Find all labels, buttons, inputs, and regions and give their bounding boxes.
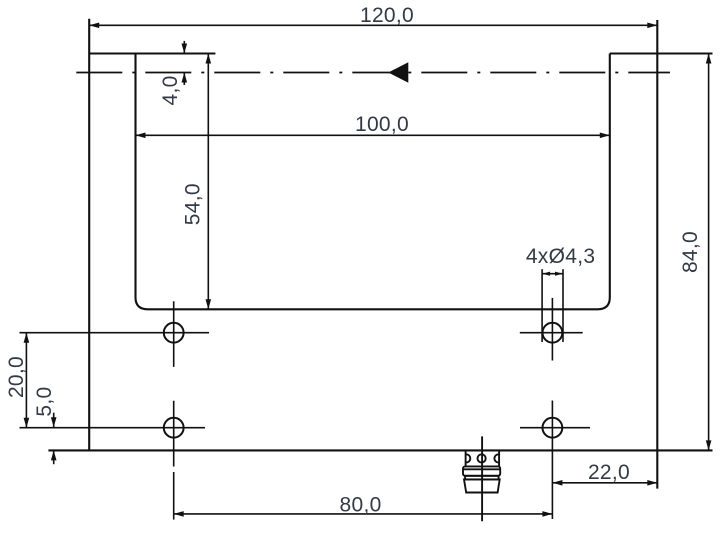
svg-text:22,0: 22,0: [588, 461, 630, 484]
svg-text:84,0: 84,0: [679, 231, 702, 273]
svg-text:80,0: 80,0: [340, 494, 382, 517]
svg-text:4,0: 4,0: [159, 75, 182, 105]
svg-text:5,0: 5,0: [33, 387, 56, 417]
svg-text:4xØ4,3: 4xØ4,3: [526, 245, 596, 268]
svg-text:54,0: 54,0: [182, 183, 205, 225]
svg-text:20,0: 20,0: [5, 356, 28, 398]
svg-text:100,0: 100,0: [355, 113, 409, 136]
svg-text:120,0: 120,0: [360, 4, 414, 27]
